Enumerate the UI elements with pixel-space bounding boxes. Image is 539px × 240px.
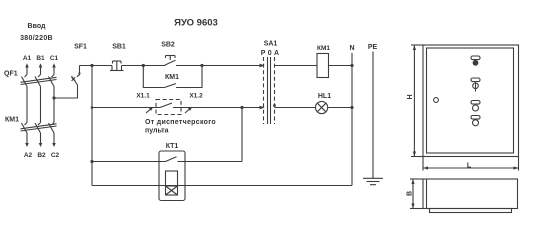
svg-text:QF1: QF1 (4, 71, 18, 78)
svg-text:C1: C1 (50, 55, 59, 62)
svg-text:КМ1: КМ1 (165, 74, 179, 81)
svg-text:H: H (407, 94, 414, 99)
breaker QF1 pole C (49, 75, 55, 87)
svg-text:SB2: SB2 (161, 42, 175, 49)
wire bottom return (92, 185, 352, 187)
dimension B (407, 179, 424, 209)
svg-text:C2: C2 (51, 152, 60, 159)
lamp HL1 (316, 101, 328, 113)
svg-text:КМ1: КМ1 (5, 117, 19, 124)
node SF1/branch junction (90, 64, 93, 67)
svg-text:Х1.1: Х1.1 (136, 93, 150, 100)
ground (363, 178, 383, 184)
breaker QF1 linkage (21, 77, 57, 84)
wire PE (372, 52, 374, 179)
terminal arrow A1 (25, 63, 29, 74)
svg-text:Р 0 А: Р 0 А (261, 50, 280, 57)
door switch plate (471, 78, 480, 82)
wire SA1 to lamp (275, 107, 316, 109)
coil KM1 (317, 54, 329, 78)
svg-text:A2: A2 (24, 152, 33, 159)
dimension L (423, 157, 519, 171)
svg-text:HL1: HL1 (318, 93, 331, 100)
contact KM1 aux (seal-in branch) (142, 64, 204, 88)
svg-text:A1: A1 (23, 55, 32, 62)
breaker QF1 pole A (22, 75, 28, 87)
wire left vertical bus (91, 66, 93, 186)
wire N bus (351, 53, 353, 186)
pushbutton SB2 (NO start) (165, 56, 176, 66)
svg-text:B2: B2 (37, 152, 46, 159)
svg-text:B1: B1 (36, 55, 45, 62)
relay KT1 (photo/time relay unit) (92, 151, 242, 201)
node C tap junction (52, 96, 55, 99)
wire remote line (92, 107, 160, 109)
contactor KM1 pole B (35, 123, 41, 134)
door button 1 (473, 105, 479, 111)
svg-text:пульта: пульта (145, 128, 169, 135)
svg-text:Х1.2: Х1.2 (189, 93, 203, 100)
wire SA1 to coil (275, 65, 318, 67)
svg-text:B: B (407, 191, 414, 196)
connector X1.1 (146, 107, 153, 113)
door lamp (473, 60, 479, 66)
breaker QF1 pole B (35, 75, 41, 87)
wire C to SF1 (54, 85, 78, 98)
wire KT1 right vertical (241, 108, 243, 162)
switch SA1 (selector) (260, 57, 276, 124)
wire phase C vertical (53, 87, 55, 123)
connector X1.2 (185, 107, 192, 113)
node KT1 tap junction (90, 160, 93, 163)
door button 2 (473, 120, 479, 126)
wire main control line (80, 65, 113, 67)
contact remote dispatcher (dashed box) (156, 100, 181, 115)
door lock (434, 98, 439, 103)
svg-text:PE: PE (368, 44, 378, 51)
pushbutton SB1 (NC stop) (110, 61, 124, 71)
wire phase B vertical (40, 87, 42, 123)
svg-text:КТ1: КТ1 (166, 143, 179, 150)
terminal arrow B1 (39, 63, 43, 74)
svg-text:380/220В: 380/220В (20, 35, 53, 42)
svg-text:SA1: SA1 (264, 41, 278, 48)
svg-text:N: N (349, 45, 354, 52)
door lamp plate (471, 56, 480, 60)
door button plate 2 (471, 116, 480, 120)
wire lamp to N (328, 107, 352, 109)
svg-text:Ввод: Ввод (28, 23, 46, 30)
wire coil to N (329, 65, 353, 67)
terminal arrow C1 (52, 63, 56, 74)
terminal arrow A2 (25, 133, 29, 147)
svg-text:ЯУО 9603: ЯУО 9603 (174, 18, 218, 29)
breaker SF1 (72, 66, 81, 86)
contactor KM1 linkage (21, 124, 57, 131)
contactor KM1 pole C (49, 123, 55, 134)
svg-text:SB1: SB1 (112, 44, 126, 51)
terminal arrow B2 (39, 133, 43, 147)
svg-text:КМ1: КМ1 (317, 45, 330, 52)
door button plate 1 (471, 101, 480, 105)
svg-text:SF1: SF1 (74, 44, 87, 51)
wire phase A vertical (26, 87, 28, 123)
contactor KM1 pole A (22, 123, 28, 134)
dimension H (407, 45, 423, 157)
terminal arrow C2 (52, 133, 56, 147)
enclosure side view (423, 179, 518, 213)
svg-text:От диспетчерского: От диспетчерского (145, 119, 216, 126)
enclosure front view (423, 45, 519, 157)
svg-text:L: L (467, 163, 472, 170)
door switch SA1 (473, 82, 479, 91)
